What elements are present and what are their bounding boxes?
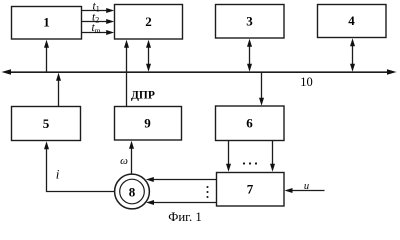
- wire t1: block1 to block2: [82, 8, 115, 13]
- svg-text:9: 9: [144, 116, 151, 131]
- wire t2: block1 to block2: [82, 19, 115, 24]
- wire tm: block1 to block2: [82, 30, 115, 35]
- block 6: [216, 106, 285, 141]
- svg-text:6: 6: [246, 116, 253, 131]
- svg-text:ω: ω: [120, 155, 128, 167]
- wire: block6 to block7 (right): [270, 141, 275, 172]
- ellipsis dots between wires 6-7: [243, 162, 257, 164]
- wire: bus to block6: [259, 72, 264, 106]
- wire u: input to block7: [285, 188, 325, 193]
- svg-text:3: 3: [246, 14, 253, 29]
- block 9: [115, 107, 182, 141]
- block 1: [12, 7, 82, 40]
- svg-text:u: u: [304, 181, 309, 192]
- block 5: [12, 107, 81, 141]
- svg-text:5: 5: [43, 116, 50, 131]
- svg-text:2: 2: [145, 14, 152, 29]
- motor/encoder unit 8 (double circle): [115, 174, 150, 209]
- wire: block5 to bus: [56, 73, 61, 107]
- wire omega: unit8 to block9: [129, 141, 134, 174]
- wire: block7 to unit8 (lower phase): [146, 200, 217, 205]
- wire: block4 to bus (bidirectional): [350, 38, 355, 71]
- wire DPR: block9 to block2 (crosses bus): [124, 40, 129, 107]
- wire: bus to block1: [44, 40, 49, 72]
- svg-text:i: i: [56, 167, 60, 182]
- wire: block7 to unit8 (upper phase): [146, 177, 217, 182]
- svg-text:10: 10: [300, 75, 313, 89]
- wire: block6 to block7 (left): [226, 141, 231, 172]
- wire i: unit8 to block5: [44, 141, 114, 191]
- vertical ellipsis dots between phases: [206, 186, 208, 198]
- block 3: [216, 5, 285, 39]
- svg-text:4: 4: [348, 13, 355, 28]
- svg-text:Фиг. 1: Фиг. 1: [168, 210, 202, 224]
- block 2: [115, 5, 183, 40]
- svg-text:7: 7: [247, 182, 254, 197]
- svg-text:ДПР: ДПР: [131, 90, 155, 102]
- block 7: [217, 173, 285, 207]
- bus 10 (bidirectional horizontal line): [2, 69, 397, 75]
- wire: block3 to bus (bidirectional): [247, 39, 252, 72]
- block 4: [318, 5, 387, 38]
- svg-text:8: 8: [129, 185, 136, 200]
- wire: block2 to bus (bidirectional): [146, 40, 151, 72]
- svg-text:1: 1: [43, 15, 50, 30]
